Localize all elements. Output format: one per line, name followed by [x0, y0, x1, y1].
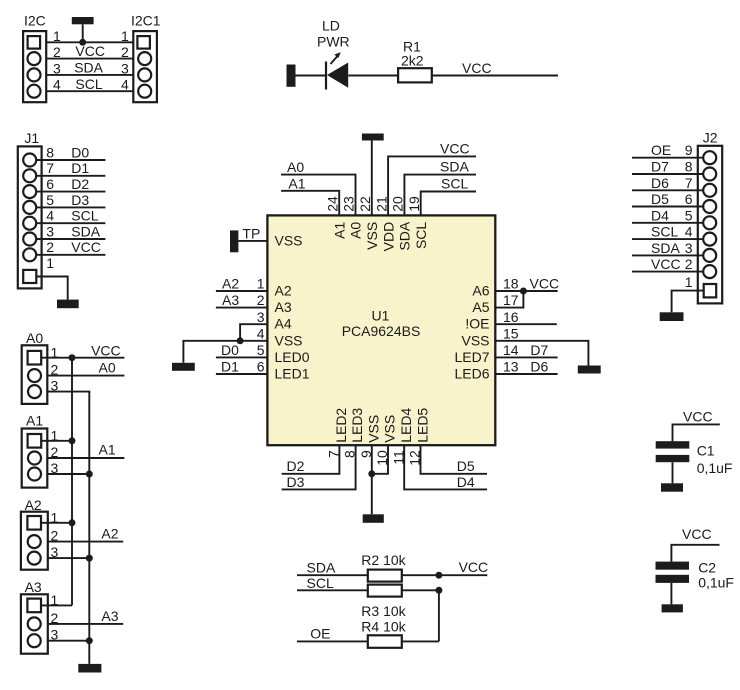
wire net D3 to U1 pin 8	[282, 445, 356, 490]
wire net A1 to U1 pin 24	[281, 175, 339, 215]
connector J2	[685, 130, 722, 304]
svg-text:VSS: VSS	[275, 232, 303, 248]
svg-text:VCC: VCC	[75, 43, 105, 59]
svg-text:VCC: VCC	[651, 256, 681, 272]
svg-text:D4: D4	[457, 474, 475, 490]
svg-text:A3: A3	[222, 292, 239, 308]
svg-text:D5: D5	[457, 458, 475, 474]
svg-text:VCC: VCC	[440, 140, 470, 156]
svg-text:A0: A0	[348, 222, 364, 239]
connector A2	[21, 497, 59, 570]
svg-text:D6: D6	[651, 175, 669, 191]
wire net D2 J1 pin 6	[36, 176, 105, 192]
svg-text:A1: A1	[26, 413, 43, 429]
wire net D2 to U1 pin 7	[282, 445, 340, 474]
LED LD PWR	[317, 18, 350, 90]
svg-text:D0: D0	[221, 342, 239, 358]
wire net VCC to C2	[671, 526, 719, 562]
svg-text:D3: D3	[287, 474, 305, 490]
ground at J1 pin 1	[57, 300, 79, 309]
svg-text:7: 7	[46, 160, 54, 176]
svg-text:6: 6	[685, 191, 693, 207]
wire net VCC J2 pin 2	[632, 256, 703, 272]
wire net A3 to U1 pin 2	[216, 292, 268, 308]
svg-text:LED2: LED2	[333, 408, 349, 443]
svg-text:16: 16	[503, 309, 519, 325]
wire net A1 pin 2	[47, 442, 124, 458]
svg-text:4: 4	[46, 208, 54, 224]
wire J2 pin 1 to ground	[672, 291, 704, 313]
svg-text:13: 13	[503, 359, 519, 375]
svg-text:0,1uF: 0,1uF	[698, 574, 734, 590]
wire net SCL to R3	[297, 575, 368, 591]
svg-text:A2: A2	[101, 526, 118, 542]
svg-text:D1: D1	[71, 160, 89, 176]
wire net A3 pin 2	[48, 608, 123, 624]
svg-text:A1: A1	[331, 222, 347, 239]
svg-text:C2: C2	[698, 559, 716, 575]
wire A0 pin 3 to ground bus	[47, 392, 89, 393]
wire R3 to VCC junction	[402, 589, 439, 591]
svg-text:A1: A1	[288, 175, 305, 191]
wire net SCL J2 pin 4	[632, 224, 703, 240]
svg-text:5: 5	[257, 342, 265, 358]
ground at U1 pin 15	[578, 366, 601, 374]
svg-text:LED7: LED7	[454, 349, 489, 365]
power flag VCC above I2C	[72, 17, 94, 42]
resistor R4 10k	[361, 618, 406, 648]
svg-text:SDA: SDA	[74, 60, 103, 76]
wire net D3 J1 pin 5	[36, 192, 105, 208]
wire C1 to ground	[672, 462, 674, 483]
svg-text:A3: A3	[25, 579, 42, 595]
svg-text:OE: OE	[651, 142, 671, 158]
svg-text:D6: D6	[530, 359, 548, 375]
svg-text:A3: A3	[275, 299, 292, 315]
svg-text:6: 6	[257, 359, 265, 375]
svg-text:LED5: LED5	[414, 408, 430, 443]
svg-text:7: 7	[685, 175, 693, 191]
svg-text:OE: OE	[310, 625, 330, 641]
wire net SCL J1 pin 4	[36, 208, 105, 224]
connector J1	[18, 130, 55, 288]
wire VCC bus A0-A3	[71, 358, 73, 606]
wire net SDA J2 pin 3	[632, 240, 703, 256]
wire VCC drop R3 to R4	[438, 590, 440, 641]
svg-text:D2: D2	[287, 458, 305, 474]
wire net SCL I2C pin4	[46, 76, 133, 92]
svg-text:A2: A2	[222, 276, 239, 292]
junction U1 pin3 pin4	[237, 337, 244, 344]
capacitor C2 0,1uF	[656, 559, 735, 590]
svg-text:VCC: VCC	[462, 60, 492, 76]
svg-text:2: 2	[685, 256, 693, 272]
svg-text:D2: D2	[71, 176, 89, 192]
svg-text:VCC: VCC	[683, 408, 713, 424]
wire net D0 to U1 pin 5	[216, 342, 268, 358]
wire net D4 to U1 pin 11	[404, 445, 487, 490]
capacitor C1 0,1uF	[656, 441, 733, 476]
connector A3	[21, 579, 59, 654]
wire net D6 J2 pin 7	[632, 175, 703, 191]
svg-text:20: 20	[390, 196, 406, 212]
wire J1 pin 1 to ground	[36, 277, 67, 300]
svg-text:1: 1	[685, 274, 693, 290]
wire R2 to VCC	[402, 559, 488, 575]
svg-text:SCL: SCL	[413, 222, 429, 249]
svg-text:17: 17	[503, 292, 519, 308]
svg-text:15: 15	[503, 325, 519, 341]
svg-text:8: 8	[46, 144, 54, 160]
ground at C2	[662, 604, 683, 612]
svg-text:A3: A3	[101, 608, 118, 624]
svg-text:8: 8	[685, 159, 693, 175]
connector A0	[22, 330, 59, 404]
wire net A2 to U1 pin 1	[216, 276, 268, 292]
wire net OE J2 pin 9	[632, 142, 703, 158]
resistor R1 2k2	[398, 39, 432, 83]
svg-text:SDA: SDA	[440, 159, 469, 175]
svg-text:3: 3	[46, 223, 54, 239]
junction U1 pin 17 18	[520, 288, 527, 295]
wire A1 pin 3 to ground bus	[47, 473, 89, 475]
svg-text:J1: J1	[24, 130, 39, 146]
wire I2C pin1 to I2C1 pin1	[46, 41, 133, 43]
wire U1 pin 16 OE	[495, 323, 557, 325]
svg-text:24: 24	[324, 196, 340, 212]
svg-text:LED6: LED6	[454, 366, 489, 382]
svg-text:PWR: PWR	[317, 34, 350, 50]
wire U1 pin 15 VSS to ground	[495, 341, 588, 366]
junction R2 VCC	[435, 572, 442, 579]
wire net D1 to U1 pin 6	[216, 359, 268, 375]
wire R4 to VCC drop	[402, 640, 439, 642]
wire A2 pin 3 to ground bus	[48, 557, 90, 559]
wire net A0 pin 2	[47, 359, 124, 375]
svg-text:LED4: LED4	[398, 408, 414, 443]
svg-text:A0: A0	[26, 330, 43, 346]
svg-text:VCC: VCC	[71, 239, 101, 255]
svg-text:A6: A6	[472, 283, 489, 299]
svg-text:5: 5	[685, 207, 693, 223]
svg-text:J2: J2	[703, 130, 718, 146]
svg-text:SDA: SDA	[71, 223, 100, 239]
svg-text:I2C: I2C	[24, 13, 46, 29]
svg-text:19: 19	[406, 196, 422, 212]
svg-text:LED1: LED1	[275, 366, 310, 382]
wire net D4 J2 pin 5	[632, 207, 703, 223]
wire net SDA J1 pin 3	[36, 223, 105, 239]
svg-text:4: 4	[685, 224, 693, 240]
wire net D5 to U1 pin 12	[421, 445, 488, 474]
svg-text:!OE: !OE	[465, 316, 489, 332]
svg-text:A0: A0	[99, 359, 116, 375]
ground at U1 pin 4	[172, 363, 195, 371]
svg-text:23: 23	[341, 196, 357, 212]
svg-text:D7: D7	[651, 159, 669, 175]
wire ground bus A0-A3	[88, 392, 90, 664]
wire A3 pin 1 to VCC bus	[41, 604, 72, 606]
wire A2 pin 1 to VCC bus	[41, 522, 72, 524]
svg-text:SDA: SDA	[307, 559, 336, 575]
svg-text:SCL: SCL	[75, 76, 102, 92]
svg-text:VDD: VDD	[380, 222, 396, 252]
svg-text:9: 9	[685, 142, 693, 158]
svg-text:SCL: SCL	[307, 575, 334, 591]
svg-text:A2: A2	[25, 497, 42, 513]
wire LED to R1	[348, 75, 398, 77]
svg-text:LED0: LED0	[275, 349, 310, 365]
wire bar to LED	[296, 75, 327, 77]
junction A2 pin 3 ground bus	[86, 555, 93, 562]
svg-text:SDA: SDA	[651, 240, 680, 256]
svg-text:5: 5	[46, 192, 54, 208]
svg-text:VSS: VSS	[461, 332, 489, 348]
svg-text:21: 21	[373, 196, 389, 212]
junction R3 VCC	[435, 587, 442, 594]
wire net VCC I2C pin2	[46, 43, 133, 59]
svg-text:6: 6	[46, 176, 54, 192]
svg-text:LD: LD	[322, 18, 340, 34]
svg-text:2k2: 2k2	[401, 53, 424, 69]
svg-text:D3: D3	[71, 192, 89, 208]
svg-text:C1: C1	[697, 442, 715, 458]
svg-text:SCL: SCL	[71, 208, 98, 224]
junction A2 pin 1 VCC bus	[69, 519, 76, 526]
wire net D5 J2 pin 6	[632, 191, 703, 207]
wire net D6 to U1 pin 13	[495, 359, 557, 375]
connector I2C1	[121, 13, 161, 103]
wire net D1 J1 pin 7	[36, 160, 105, 176]
svg-text:A1: A1	[99, 442, 116, 458]
svg-text:U1: U1	[372, 307, 390, 323]
wire net A0 to U1 pin 23	[281, 159, 355, 215]
wire net D7 J2 pin 8	[632, 159, 703, 175]
wire A3 pin 3 to ground bus	[48, 640, 90, 642]
svg-text:VSS: VSS	[382, 415, 398, 443]
svg-text:22: 22	[357, 196, 373, 212]
svg-text:SDA: SDA	[397, 221, 413, 250]
test point TP	[230, 226, 260, 253]
wire net VCC at R1	[432, 60, 558, 76]
svg-text:0,1uF: 0,1uF	[697, 460, 733, 476]
ground at U1 pin 9	[363, 514, 384, 523]
resistor R3 10k	[361, 585, 406, 620]
wire net OE to R4	[297, 625, 368, 641]
wire net SDA to R2	[297, 559, 368, 575]
svg-text:VSS: VSS	[275, 332, 303, 348]
wire net SCL to U1 pin 19	[421, 176, 476, 216]
wire A1 pin 1 to VCC bus	[41, 440, 72, 442]
svg-text:R2 10k: R2 10k	[361, 552, 406, 568]
svg-text:D5: D5	[651, 191, 669, 207]
svg-text:2: 2	[257, 292, 265, 308]
wire U1 pin 10 VSS	[372, 445, 388, 474]
wire net VCC J1 pin 2	[36, 239, 105, 255]
svg-text:A5: A5	[472, 299, 489, 315]
connector I2C	[23, 13, 61, 103]
wire A0 pin 1 to VCC	[41, 343, 124, 359]
svg-text:3: 3	[685, 240, 693, 256]
ground above U1 pin 22	[362, 134, 384, 141]
wire net VCC to C1	[673, 408, 720, 441]
junction A1 pin 3 ground bus	[86, 471, 93, 478]
wire net SDA I2C pin3	[46, 60, 133, 76]
wire U1 pin 22 VSS to ground	[371, 141, 373, 216]
svg-text:R3 10k: R3 10k	[361, 603, 406, 619]
junction I2C pin1 net	[79, 39, 86, 46]
wire net VCC to U1 pin 21	[388, 140, 476, 215]
svg-text:I2C1: I2C1	[131, 13, 161, 29]
svg-text:VCC: VCC	[682, 526, 712, 542]
ground at A headers	[78, 664, 101, 673]
svg-text:VSS: VSS	[365, 415, 381, 443]
wire U1 pin 9 VSS to ground	[371, 445, 373, 514]
svg-text:A0: A0	[287, 159, 304, 175]
svg-text:14: 14	[503, 342, 519, 358]
wire net D7 to U1 pin 14	[495, 342, 557, 358]
svg-text:2: 2	[46, 239, 54, 255]
junction A3 pin 3 ground bus	[86, 637, 93, 644]
svg-text:R4 10k: R4 10k	[361, 618, 406, 634]
svg-text:PCA9624BS: PCA9624BS	[342, 323, 421, 339]
ground at J2 pin 1	[660, 312, 684, 321]
wire net SDA to U1 pin 20	[404, 159, 476, 216]
svg-text:TP: TP	[242, 226, 260, 242]
wire net VCC at U1 pin 18	[495, 276, 559, 292]
svg-text:SCL: SCL	[651, 224, 678, 240]
svg-text:3: 3	[257, 309, 265, 325]
svg-text:D4: D4	[651, 207, 669, 223]
svg-text:A4: A4	[275, 316, 292, 332]
ground at C1	[661, 483, 683, 491]
svg-text:VSS: VSS	[364, 222, 380, 250]
svg-text:A2: A2	[275, 283, 292, 299]
junction U1 pin 9 10	[368, 470, 375, 477]
junction A0 pin 1 VCC bus	[69, 354, 76, 361]
wire TP to U1	[238, 240, 267, 242]
wire U1 pin 4 VSS to ground	[183, 341, 267, 363]
wire U1 pin 17 to pin 18	[495, 291, 523, 308]
svg-text:VCC: VCC	[459, 559, 489, 575]
svg-text:D0: D0	[71, 144, 89, 160]
svg-text:1: 1	[46, 255, 54, 271]
svg-text:LED3: LED3	[349, 408, 365, 443]
wire net A2 pin 2	[48, 526, 123, 542]
wire U1 pin 3 to pin 4	[240, 324, 267, 341]
svg-text:4: 4	[257, 325, 265, 341]
svg-text:18: 18	[503, 276, 519, 292]
svg-text:SCL: SCL	[441, 176, 468, 192]
svg-text:VCC: VCC	[91, 343, 121, 359]
IC U1 PCA9624BS	[257, 196, 519, 466]
wire C2 to ground	[670, 583, 672, 604]
junction A1 pin 1 VCC bus	[69, 437, 76, 444]
svg-text:D7: D7	[530, 342, 548, 358]
svg-text:1: 1	[257, 276, 265, 292]
test pad bar at LED cathode	[287, 65, 296, 87]
resistor R2 10k	[361, 552, 406, 582]
svg-text:VCC: VCC	[530, 276, 560, 292]
svg-text:D1: D1	[221, 359, 239, 375]
connector A1	[22, 413, 59, 488]
wire net D0 J1 pin 8	[36, 144, 105, 160]
